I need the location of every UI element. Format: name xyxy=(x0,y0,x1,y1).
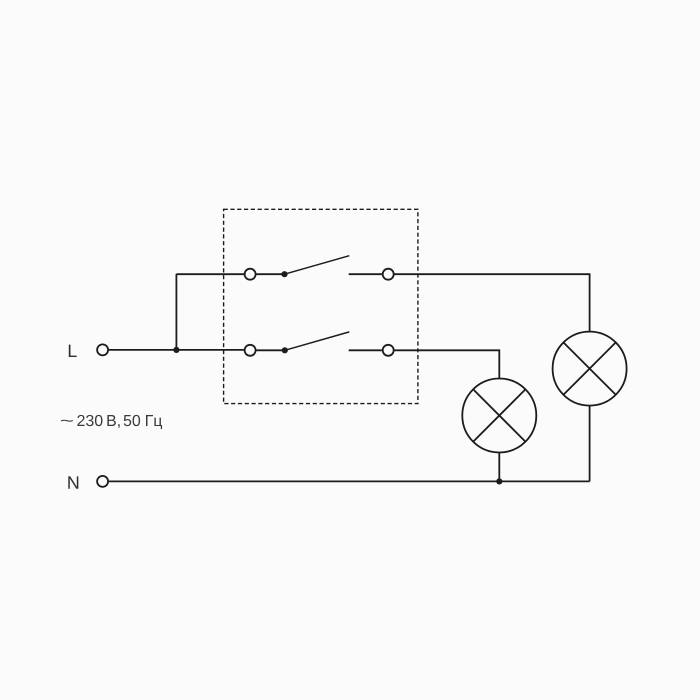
switch S1 pole segment xyxy=(256,273,284,275)
switch S2 input terminal xyxy=(245,345,256,356)
wire lamp HL2 to N xyxy=(589,405,591,481)
junction lamp HL1 on N wire xyxy=(496,478,502,484)
label N xyxy=(68,476,78,488)
switch S2 output terminal xyxy=(383,345,394,356)
switch S1 pivot dot xyxy=(281,271,287,277)
switch S1 throw segment xyxy=(349,273,382,275)
switch S2 lever xyxy=(285,332,350,350)
wire branch to switch 1 input xyxy=(176,273,244,275)
wire switch 2 output to lamp HL1 xyxy=(395,350,500,379)
label rating ~ 230 V 50 Hz xyxy=(61,415,162,429)
wire switch 1 output to lamp HL2 xyxy=(395,274,590,332)
wire branch vertical xyxy=(175,274,177,350)
wire L feed xyxy=(109,349,244,351)
label L xyxy=(69,345,77,357)
switch S2 pole segment xyxy=(256,349,284,351)
switch S2 throw segment xyxy=(349,349,382,351)
enclosure dashed box (switch unit) xyxy=(224,209,418,403)
switch S1 input terminal xyxy=(245,269,256,280)
junction L branch xyxy=(173,347,179,353)
wire N xyxy=(109,480,590,482)
terminal N xyxy=(97,476,108,487)
switch S1 output terminal xyxy=(383,269,394,280)
lamp HL1 xyxy=(462,379,536,453)
switch S1 lever xyxy=(285,256,350,275)
wire lamp HL1 to N xyxy=(498,452,500,481)
terminal L xyxy=(97,344,108,355)
lamp HL2 xyxy=(553,332,627,406)
switch S2 pivot dot xyxy=(282,347,288,353)
